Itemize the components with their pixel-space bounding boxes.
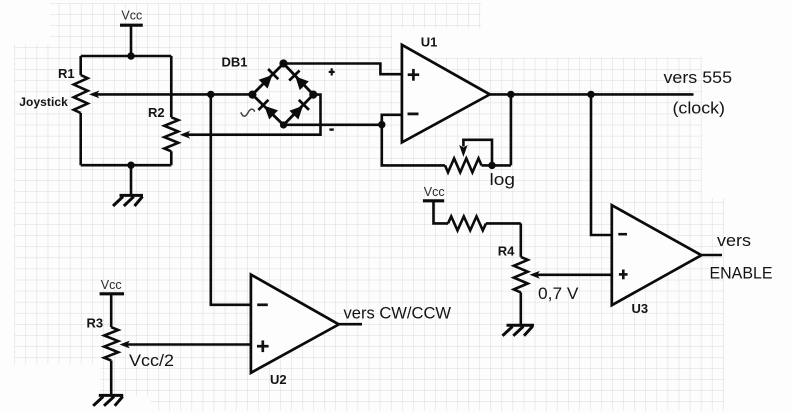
wire R3 to ground [110,361,113,396]
wire Vcc stem to series resistor [434,201,449,224]
Vcc supply bar (top) [120,24,143,27]
wire R3 wiper to U2 non-inverting input [126,343,251,346]
svg-text:R3: R3 [87,315,104,330]
wire feedback down to log potentiometer [382,125,445,166]
wire top of R1/R2 loop [81,55,172,58]
node U1 inverting branch [378,121,385,128]
diode bridge DB1 diamond [252,64,313,126]
wire R1 wiper to bridge left node [96,93,252,96]
wire Vcc stem to R3 [110,294,113,327]
wire node to U1 inverting input [382,115,402,125]
AC sine mark [241,109,255,116]
ground (R1/R2 loop) [113,195,143,206]
wire bridge - output [284,124,382,127]
resistor R3 (potentiometer body) [104,327,118,360]
ground (R3) [93,395,123,405]
node loop bottom / ground [127,162,134,169]
wire bridge + output to U1 non-inverting input [284,64,403,75]
diode D4 (bottom node to right node) [289,100,309,120]
arrow log wiper (down) [459,145,467,157]
U2 - input mark [257,303,268,306]
wire U1 output [490,93,694,96]
wire R2 wiper to bridge right node [187,95,321,135]
svg-text:ENABLE: ENABLE [710,264,773,283]
svg-text:vers: vers [717,231,751,250]
svg-text:R4: R4 [498,244,515,259]
op-amp U3 [612,205,702,305]
ground (R4) [503,325,535,336]
wire down to R4 [519,223,522,257]
node U1 output branch 1 [507,91,514,98]
svg-text:vers 555: vers 555 [664,68,733,87]
Vcc supply bar (R4) [423,199,444,202]
diode D1 (left node to top node) [259,69,279,89]
diode D3 (bottom node to left node) [258,100,278,120]
svg-text:U2: U2 [270,372,287,387]
U1 - input mark [408,113,419,116]
node R1 wiper branch [207,91,214,98]
svg-text:R2: R2 [148,105,165,120]
node bridge bottom [280,121,287,128]
svg-text:U3: U3 [632,301,649,316]
wire Vcc stem [130,25,133,56]
node Vcc/loop top [127,52,134,59]
svg-text:Joystick: Joystick [19,95,68,109]
diode D2 (right node to top node) [289,71,309,91]
wire R4 wiper to U3 non-inverting input [536,273,612,276]
U1 + input mark [408,69,420,81]
svg-text:log: log [490,170,516,189]
bridge + polarity mark [329,68,335,75]
wire branch down to U2 inverting input [211,94,251,304]
svg-text:0,7 V: 0,7 V [538,284,579,303]
junction node dots [127,52,594,169]
resistor R2 (potentiometer body) [170,56,173,117]
svg-text:R1: R1 [58,66,75,81]
node U1 output branch 2 [587,91,594,98]
wire U1 output to log pot [510,94,513,165]
U3 + input mark [619,270,628,280]
Vcc supply bar (R3) [100,292,124,295]
node bridge top [279,59,287,67]
arrow R1 wiper [89,91,99,99]
wire ground stem [130,165,133,195]
node log wiper tie [488,162,495,169]
op-amp U2 [251,275,339,373]
arrow R2 wiper [180,131,190,139]
U2 + input mark [257,340,269,352]
resistor R4 (potentiometer body) [514,257,528,293]
node bridge right [309,91,317,99]
wire U3 output [701,254,722,257]
svg-text:Vcc: Vcc [424,185,445,199]
svg-text:Vcc: Vcc [101,278,122,292]
svg-text:vers CW/CCW: vers CW/CCW [344,303,452,322]
wire bottom of R1/R2 loop [81,164,172,167]
svg-text:Vcc/2: Vcc/2 [129,351,174,370]
svg-text:(clock): (clock) [673,99,726,118]
U3 - input mark [618,233,627,236]
bridge - polarity mark [329,128,333,130]
op-amp U1 [402,45,490,143]
arrow R4 wiper [530,271,540,279]
svg-text:U1: U1 [421,35,438,50]
wire U2 output [339,323,362,326]
svg-text:DB1: DB1 [222,54,248,69]
wire branch to U3 inverting input [591,94,612,235]
resistor series with R4 [448,216,486,230]
wire log wiper link [463,140,492,166]
potentiometer log (body) [445,158,482,172]
wire R4 to ground [519,292,522,325]
resistor R1 (potentiometer body) [79,56,82,75]
arrow R3 wiper [120,341,130,349]
node bridge left [248,91,256,99]
svg-text:Vcc: Vcc [121,9,142,23]
